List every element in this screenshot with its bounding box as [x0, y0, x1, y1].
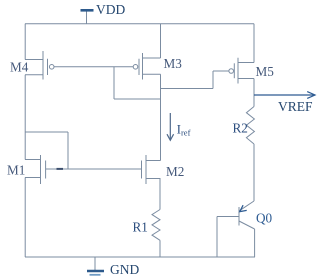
transistor M5 gate bar	[233, 63, 235, 78]
transistor Q0 collector diagonal	[239, 221, 255, 229]
transistor M3 gate bar	[138, 59, 140, 75]
svg-text:VDD: VDD	[96, 2, 125, 17]
ground bar 1	[87, 270, 104, 273]
transistor M2 channel bar	[145, 155, 147, 184]
arrow Q0 emitter head	[240, 205, 247, 211]
transistor Q0 base bar	[238, 207, 240, 226]
junction dash on M1-M2 gate wire	[57, 168, 64, 170]
wire Q0 base vertical to ground rail	[216, 217, 218, 258]
svg-text:GND: GND	[110, 262, 139, 277]
transistor M1 source stub	[25, 177, 41, 179]
wire R1 bottom lead	[159, 240, 161, 257]
wire left vertical upper (rail to M4 source)	[24, 24, 26, 60]
svg-text:R1: R1	[133, 219, 148, 234]
transistor M3 drain stub	[143, 73, 161, 75]
svg-text:M5: M5	[256, 64, 275, 79]
wire M1 diode tap horizontal	[25, 131, 68, 133]
wire M5 source to rail	[253, 24, 255, 63]
power VDD bar	[81, 9, 94, 12]
transistor M2 source stub	[146, 178, 161, 180]
wire to M5 gate horizontal	[161, 88, 214, 90]
wire gate bus M4-M3	[54, 66, 133, 68]
wire top VDD rail	[25, 23, 254, 25]
ground bar 2	[90, 274, 101, 276]
transistor M3 source stub	[143, 57, 161, 59]
transistor M1 gate bar	[45, 161, 47, 179]
wire Q0 collector vertical	[254, 229, 256, 257]
transistor M1 drain stub	[25, 159, 41, 161]
wire GND tap stem	[94, 257, 96, 271]
svg-text:M3: M3	[164, 56, 183, 71]
wire gate bus M1-M2	[46, 168, 142, 170]
wire gate tap vertical	[113, 67, 115, 99]
svg-text:M2: M2	[166, 164, 184, 179]
wire to M5 gate stub	[213, 70, 229, 72]
wire left vertical middle (M4 drain to M1 drain)	[24, 75, 26, 160]
transistor M5 source stub	[238, 62, 254, 64]
wire R2 bottom lead to Q0 emitter	[253, 144, 255, 201]
svg-text:R2: R2	[233, 120, 248, 135]
wire left vertical lower (M1 source to ground rail)	[24, 178, 26, 258]
arrow VREF output	[254, 92, 315, 99]
transistor M4 channel bar	[42, 51, 44, 80]
wire M1 diode tap vertical	[67, 132, 69, 169]
transistor M3 channel bar	[142, 53, 144, 80]
transistor Q0 emitter diagonal	[240, 201, 254, 211]
transistor M5 drain stub	[238, 78, 254, 80]
transistor M4 source stub	[25, 59, 43, 61]
svg-text:M4: M4	[10, 60, 29, 75]
svg-text:M1: M1	[7, 163, 25, 178]
transistor M1 channel bar	[40, 155, 42, 184]
wire M5 drain to VREF node and R2	[253, 79, 255, 107]
transistor M2 gate bar	[141, 161, 143, 179]
wire Q0 base horizontal	[217, 216, 239, 218]
transistor M4 gate bubble	[49, 65, 54, 70]
transistor M4 drain stub	[25, 74, 43, 76]
svg-text:Q0: Q0	[256, 210, 273, 225]
wire M2 source to R1	[159, 179, 161, 210]
transistor M2 drain stub	[146, 160, 161, 162]
transistor M3 gate bubble	[133, 65, 138, 70]
wire to M5 gate vertical	[212, 71, 214, 89]
resistor R1 zigzag	[152, 210, 160, 241]
arrow Iref	[167, 113, 174, 140]
wire gate tap horizontal to drain net	[114, 98, 161, 100]
svg-text:VREF: VREF	[278, 99, 313, 114]
wire bottom ground rail	[25, 256, 255, 258]
wire VDD tap stem	[86, 11, 88, 24]
transistor M5 channel bar	[237, 58, 239, 84]
wire M3 source to rail	[160, 24, 162, 58]
wire middle vertical (M3 drain to M2 drain)	[160, 74, 162, 160]
resistor R2 zigzag	[246, 107, 254, 145]
transistor M4 gate bar	[47, 59, 49, 75]
transistor M5 gate bubble	[229, 69, 234, 74]
